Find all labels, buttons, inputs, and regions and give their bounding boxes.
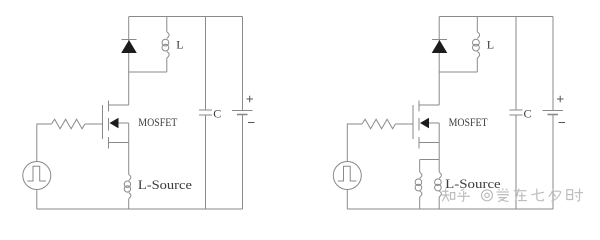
label - (left circuit) (248, 122, 255, 124)
wire: capacitor branch vertical bottom (right circuit) (515, 115, 517, 209)
wire: inductor branch vertical top (right circuit) (476, 17, 478, 33)
wire: left source branch to bottom bus (right circuit) (419, 197, 421, 209)
wire: inductor branch vertical bottom (left circuit) (166, 58, 168, 72)
wire: top bus (left circuit) (129, 16, 243, 18)
label + (left circuit) (247, 96, 254, 103)
wire: capacitor branch vertical top (right circuit) (515, 17, 517, 111)
battery V1 (left circuit) (232, 17, 253, 210)
wire: inductor branch vertical top (left circuit) (166, 17, 168, 33)
inductor L (left circuit) (162, 32, 169, 58)
watermark 知乎 @爱在七夕时 (hand-drawn glyph strokes) (441, 188, 583, 201)
wire: source vertical to split (right circuit) (438, 123, 440, 172)
pulse source V4 (right circuit) (333, 162, 361, 190)
wire: resistor to gate (right circuit) (395, 123, 413, 125)
wire: left source branch vertical (right circuit) (419, 160, 421, 173)
wire: bottom bus (left circuit) (37, 208, 243, 210)
wire: source to resistor (right circuit) (347, 124, 362, 162)
wire: source to resistor (left circuit) (37, 124, 52, 162)
svg-text:L-Source: L-Source (138, 177, 192, 192)
wire: pulse source to bottom bus (right circuit) (346, 190, 348, 210)
svg-text:L: L (176, 38, 183, 52)
inductor L-Source A (right circuit, left branch) (415, 172, 422, 197)
wire: split horizontal (right circuit) (420, 159, 440, 161)
watermark glyph 时 (567, 189, 583, 202)
diode D1 (freewheel, left circuit) (121, 40, 137, 54)
MOSFET Q1 (left circuit) (103, 101, 129, 149)
wire: inductor branch vertical bottom (right circuit) (476, 58, 478, 72)
svg-text:MOSFET: MOSFET (138, 115, 178, 129)
inductor L-Source B (right circuit, right branch) (435, 172, 442, 197)
wire: right source branch to bottom bus (right circuit) (438, 197, 440, 209)
wire: diode/drain vertical (right circuit) (438, 17, 440, 106)
watermark glyph 在 (514, 189, 527, 202)
watermark glyph @ (482, 190, 493, 201)
svg-text:L: L (487, 38, 494, 52)
capacitor C (right circuit) (510, 110, 523, 115)
wire: L-Source to bottom bus (left circuit) (128, 199, 130, 209)
diode D2 (freewheel, right circuit) (432, 40, 448, 54)
inductor L-Source (left circuit) (124, 175, 131, 199)
watermark glyph 爱 (497, 188, 510, 201)
wire: top bus (right circuit) (439, 16, 553, 18)
wire: capacitor branch vertical bottom (left circuit) (205, 115, 207, 209)
resistor R1 (left circuit) (52, 119, 85, 129)
svg-text:L-Source: L-Source (445, 176, 501, 191)
wire: diode/drain vertical (left circuit) (128, 17, 130, 106)
wire: resistor to gate (left circuit) (85, 123, 103, 125)
watermark glyph 知 (441, 189, 455, 202)
resistor R2 (right circuit) (362, 119, 395, 129)
wire: drain junction to inductor branch (right circuit) (439, 71, 477, 73)
wire: pulse source to bottom bus (left circuit) (36, 190, 38, 210)
MOSFET Q2 (right circuit) (413, 101, 439, 149)
capacitor C (left circuit) (199, 110, 212, 115)
watermark glyph 乎 (457, 189, 470, 202)
battery V3 (right circuit) (543, 17, 564, 210)
watermark glyph 夕 (549, 189, 561, 202)
pulse source V2 (left circuit) (23, 162, 51, 190)
wire: drain junction to inductor branch (left circuit) (129, 71, 167, 73)
watermark glyph 七 (531, 189, 544, 201)
svg-text:C: C (213, 107, 221, 121)
wire: source vertical (left circuit) (128, 123, 130, 175)
svg-text:C: C (524, 107, 532, 121)
label + (right circuit) (557, 96, 564, 103)
wire: capacitor branch vertical top (left circuit) (205, 17, 207, 111)
svg-text:MOSFET: MOSFET (449, 115, 489, 129)
wire: bottom bus (right circuit) (347, 208, 553, 210)
label - (right circuit) (559, 122, 566, 124)
inductor L (right circuit) (473, 32, 480, 58)
